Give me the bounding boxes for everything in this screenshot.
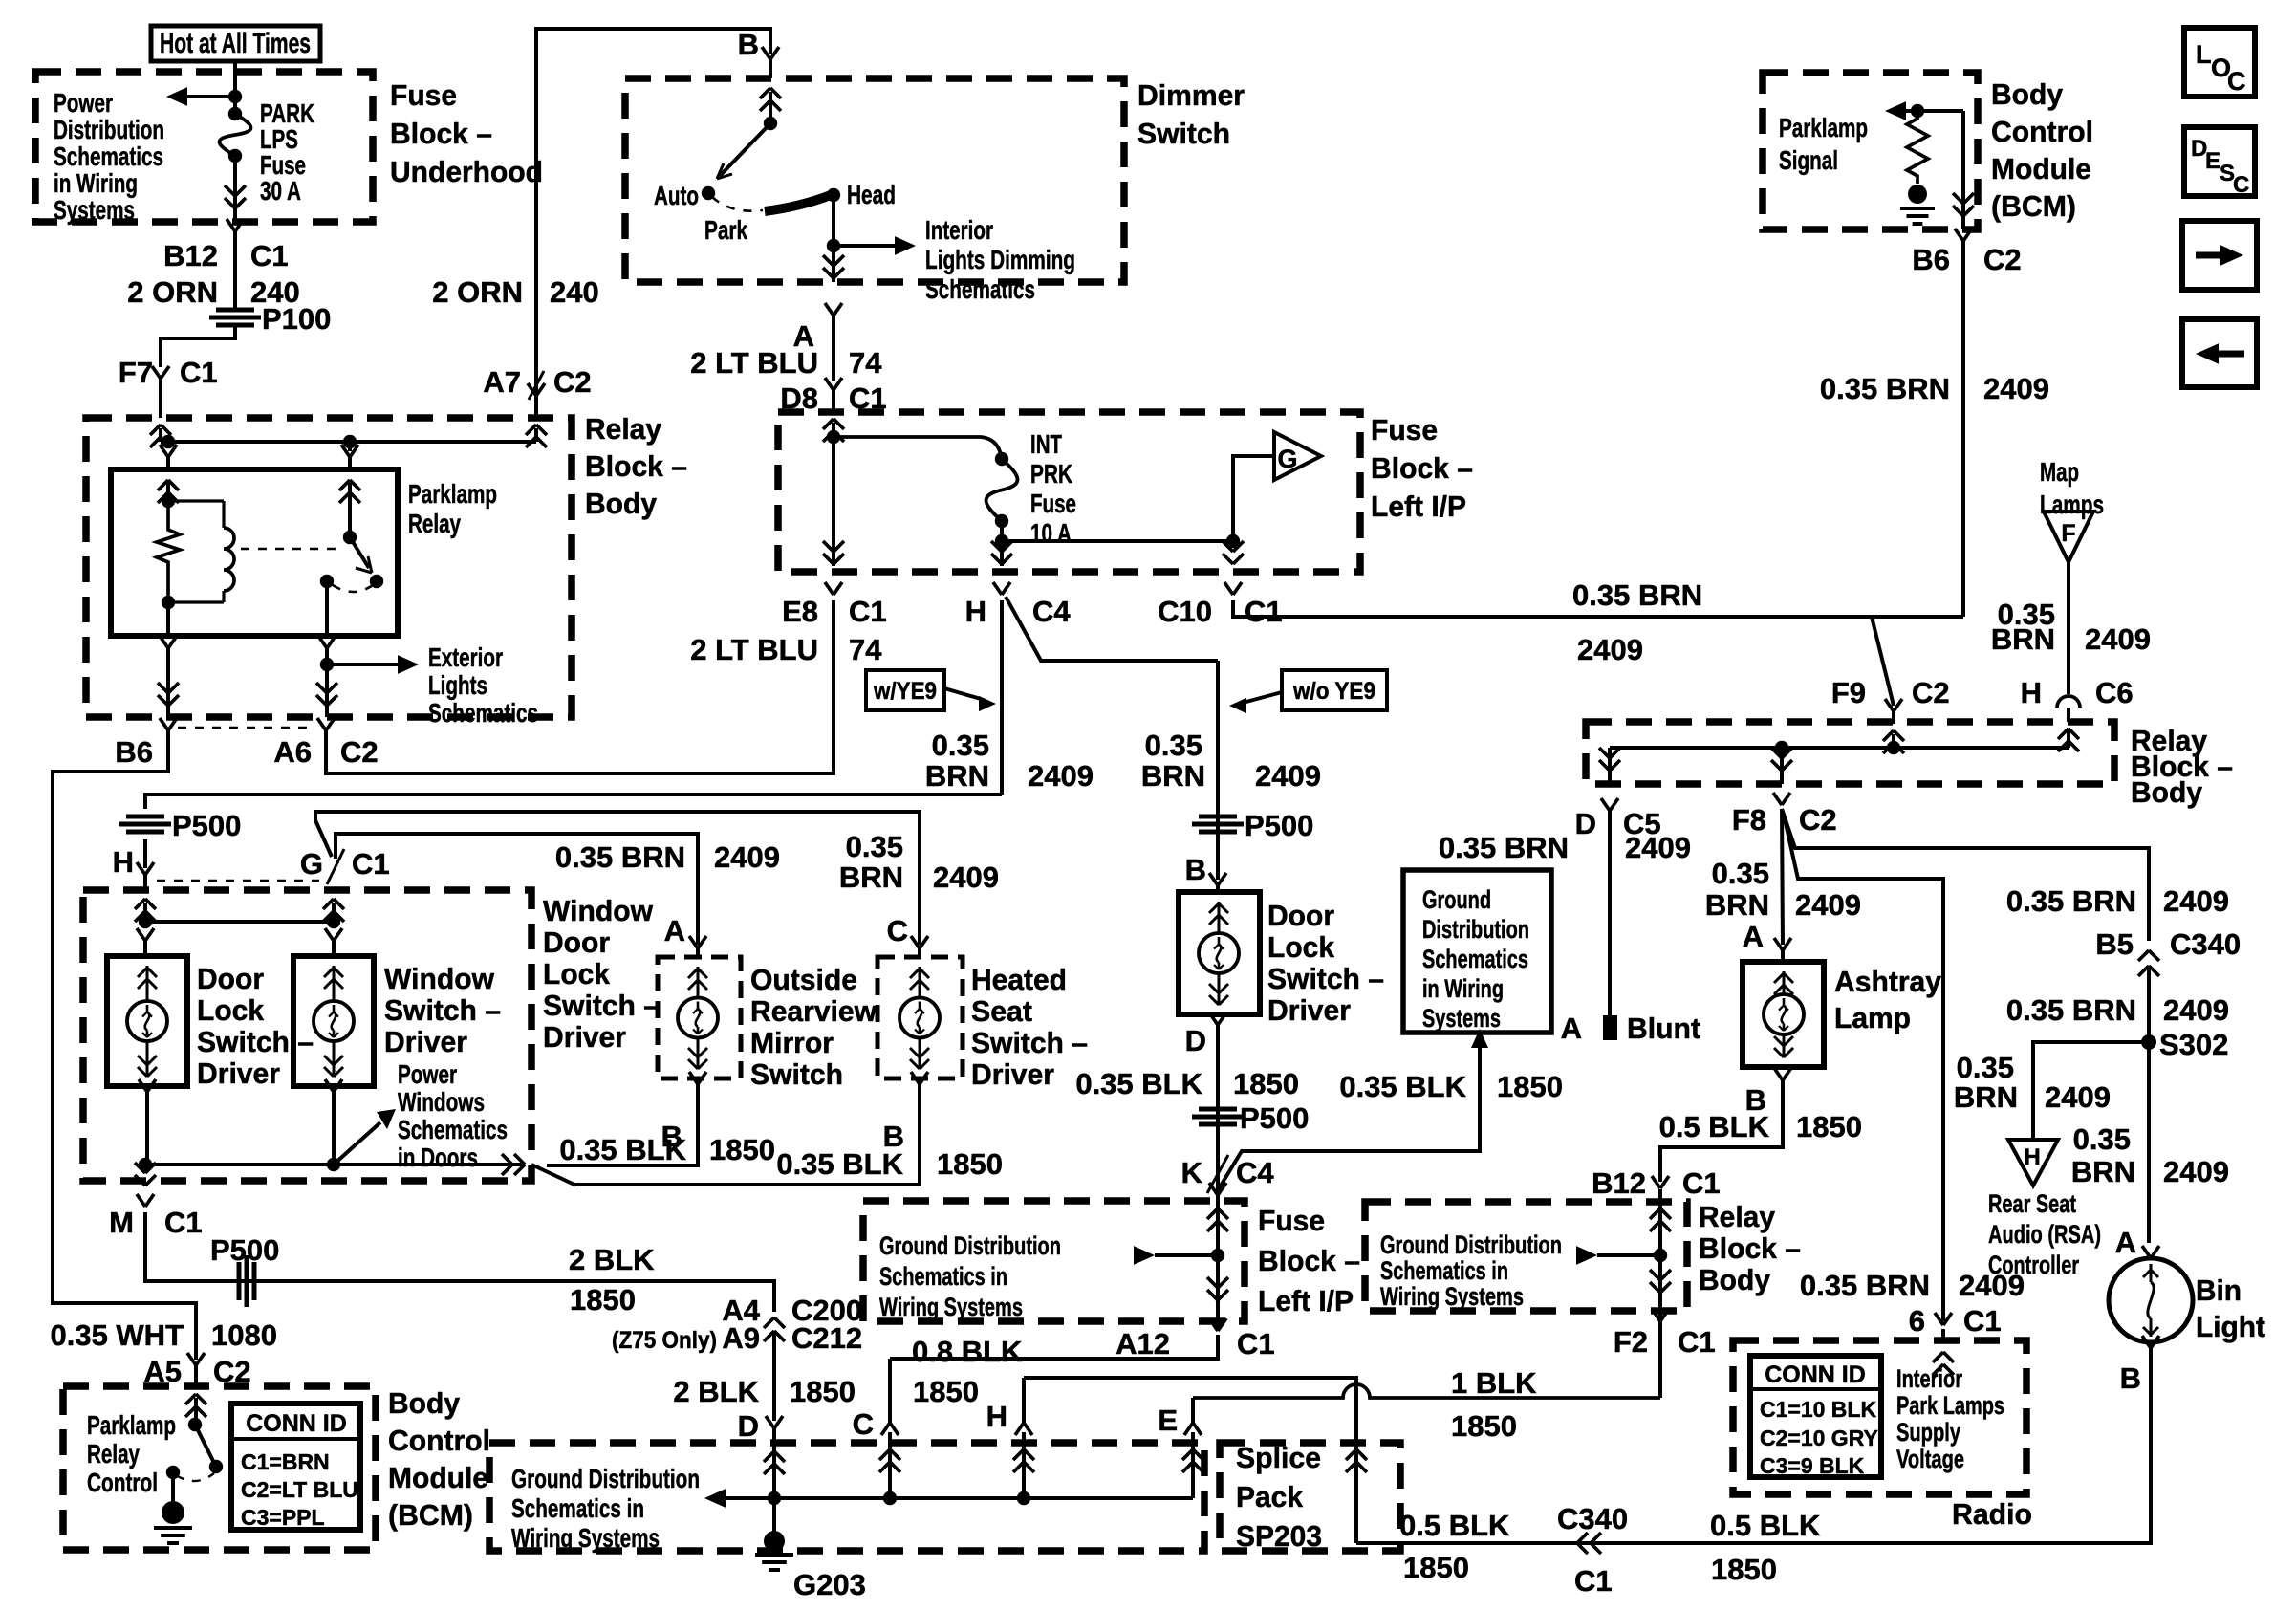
svg-text:Door: Door <box>543 925 610 959</box>
wire C10 run right <box>1233 600 1963 617</box>
svg-text:74: 74 <box>849 346 882 380</box>
wire left pass arrow <box>1134 1246 1155 1265</box>
svg-text:2409: 2409 <box>2163 1155 2229 1188</box>
svg-text:C1: C1 <box>1682 1166 1721 1200</box>
svg-text:Parklamp: Parklamp <box>408 479 497 509</box>
svg-text:Auto: Auto <box>654 181 699 210</box>
svg-text:Blunt: Blunt <box>1627 1012 1700 1045</box>
svg-text:F9: F9 <box>1831 676 1866 709</box>
svg-text:2409: 2409 <box>1577 633 1643 666</box>
connector D C5 <box>1601 798 1610 811</box>
door lock switch driver center box <box>1179 892 1260 1014</box>
wire power windows arrow <box>334 1122 380 1165</box>
svg-text:1 BLK: 1 BLK <box>1451 1366 1537 1400</box>
svg-text:Wiring Systems: Wiring Systems <box>1380 1282 1524 1311</box>
svg-text:Ground Distribution: Ground Distribution <box>511 1464 700 1493</box>
ashtray lamp box <box>1743 962 1824 1067</box>
svg-text:0.35 BRN: 0.35 BRN <box>1572 578 1702 612</box>
svg-text:C2=LT BLU: C2=LT BLU <box>241 1477 358 1502</box>
wire right pass arrow <box>1576 1246 1597 1265</box>
svg-text:Park Lamps: Park Lamps <box>1896 1391 2004 1420</box>
svg-text:A6: A6 <box>273 735 312 769</box>
connector E8 C1 <box>823 554 834 564</box>
connector door lock plug <box>137 928 145 941</box>
svg-text:BRN: BRN <box>1705 888 1769 922</box>
svg-text:Head: Head <box>847 180 896 209</box>
svg-text:A: A <box>1743 920 1764 953</box>
splice pack box <box>1220 1443 1400 1551</box>
svg-text:B: B <box>1185 853 1206 886</box>
wire HC6 entry arrow <box>2058 729 2069 739</box>
connector P100 <box>216 308 254 313</box>
wire ground ref branch <box>1218 1044 1480 1190</box>
svg-text:Systems: Systems <box>1422 1004 1501 1033</box>
callout w/o YE9 <box>1282 670 1387 710</box>
svg-text:C: C <box>887 914 908 947</box>
svg-text:BRN: BRN <box>1954 1080 2018 1114</box>
svg-text:74: 74 <box>849 633 882 666</box>
svg-text:2409: 2409 <box>1255 759 1321 793</box>
wire G inner loop to mirror <box>336 834 698 945</box>
svg-text:(BCM): (BCM) <box>1991 189 2076 223</box>
wire resistor leg out <box>166 602 170 636</box>
wire exterior lights arrow <box>327 663 398 666</box>
svg-text:C3=PPL: C3=PPL <box>241 1505 325 1530</box>
svg-text:C2: C2 <box>553 365 592 399</box>
wire fuse out <box>1000 521 1004 566</box>
node rail F8 <box>1775 741 1788 754</box>
node window rail right <box>327 915 340 928</box>
svg-text:0.35 BRN: 0.35 BRN <box>2006 884 2136 918</box>
svg-text:G: G <box>1277 445 1297 473</box>
svg-text:Driver: Driver <box>543 1020 626 1054</box>
svg-text:1850: 1850 <box>937 1147 1003 1181</box>
svg-text:Block –: Block – <box>1258 1244 1360 1277</box>
svg-text:P100: P100 <box>262 302 331 336</box>
svg-text:2409: 2409 <box>1028 759 1094 793</box>
wire P500 to H window box <box>143 839 147 868</box>
svg-text:H: H <box>113 845 134 879</box>
svg-text:0.5 BLK: 0.5 BLK <box>1710 1509 1821 1542</box>
svg-text:Switch –: Switch – <box>971 1026 1088 1059</box>
svg-text:C1: C1 <box>1245 595 1283 628</box>
wire parklamp signal arrow <box>1902 109 1963 113</box>
svg-text:Wiring Systems: Wiring Systems <box>879 1293 1023 1321</box>
svg-text:Control: Control <box>87 1468 158 1497</box>
connector relay pin right <box>348 442 352 451</box>
svg-text:0.35 BRN: 0.35 BRN <box>555 840 685 874</box>
conn id table radio <box>1750 1356 1881 1477</box>
svg-text:1850: 1850 <box>1403 1551 1469 1584</box>
svg-text:2409: 2409 <box>1983 372 2049 405</box>
node F2 junction <box>1654 1249 1667 1262</box>
wire H loop to splice <box>1024 1378 1356 1543</box>
wire B6 to left column <box>53 738 196 1360</box>
node parklamp junction <box>1911 104 1924 118</box>
door lock switch driver box <box>107 956 187 1086</box>
wire G outer loop to heated seat <box>315 812 920 945</box>
svg-text:C4: C4 <box>1032 595 1071 628</box>
svg-text:Systems: Systems <box>54 195 135 225</box>
wire F8 drop <box>1780 748 1784 784</box>
svg-text:2409: 2409 <box>2045 1080 2111 1114</box>
svg-text:C1: C1 <box>1678 1325 1716 1359</box>
connector B6 <box>160 718 168 730</box>
svg-text:(Z75 Only): (Z75 Only) <box>612 1327 717 1354</box>
svg-text:1850: 1850 <box>1796 1110 1862 1143</box>
connector B12 C1 <box>227 219 235 231</box>
switch arm relay <box>350 537 369 568</box>
arrow to ground ref box <box>1471 1029 1488 1048</box>
wire relay switch leg <box>348 483 352 537</box>
ground bcm top <box>1908 185 1927 204</box>
connector window switch plug <box>325 928 334 941</box>
svg-text:in Wiring: in Wiring <box>54 168 138 198</box>
svg-text:A: A <box>2115 1226 2136 1259</box>
svg-text:Block –: Block – <box>585 449 687 483</box>
svg-text:C4: C4 <box>1236 1156 1274 1189</box>
node G branch <box>1226 534 1240 548</box>
svg-text:A: A <box>1561 1012 1582 1045</box>
ground distribution schematics box solid <box>1403 870 1551 1033</box>
svg-text:BRN: BRN <box>1141 759 1205 793</box>
svg-text:M: M <box>109 1206 134 1239</box>
svg-text:H: H <box>2021 676 2042 709</box>
svg-text:Schematics: Schematics <box>398 1115 508 1144</box>
wire P100 to F7 <box>161 325 235 367</box>
wire map lamps down <box>2067 562 2070 694</box>
wire mirror ground <box>547 1084 698 1165</box>
svg-text:F7: F7 <box>119 356 153 389</box>
svg-text:C1: C1 <box>164 1206 203 1239</box>
svg-text:SP203: SP203 <box>1236 1519 1322 1553</box>
bcm box top <box>1763 73 1978 229</box>
wire dashed tie B6 A6 <box>178 727 315 729</box>
svg-text:Body: Body <box>585 487 658 520</box>
svg-text:2409: 2409 <box>2163 993 2229 1027</box>
connector P500 center lower <box>1199 1107 1237 1112</box>
svg-text:D: D <box>1575 807 1596 840</box>
wire head output <box>832 195 835 282</box>
wire heated ground <box>574 1084 920 1185</box>
window switch driver box <box>293 956 374 1086</box>
wire to INT PRK fuse <box>834 437 1002 461</box>
svg-text:Lock: Lock <box>543 957 611 991</box>
svg-text:S302: S302 <box>2159 1028 2228 1061</box>
svg-text:Heated: Heated <box>971 963 1067 996</box>
svg-text:1850: 1850 <box>1711 1553 1777 1586</box>
svg-text:Window: Window <box>543 894 654 927</box>
connector A4 C200 A9 C212 <box>764 1317 774 1328</box>
svg-text:H: H <box>965 595 986 628</box>
node fuse feed junction <box>827 430 840 444</box>
svg-text:Control: Control <box>1991 115 2093 148</box>
node bus H <box>1017 1491 1030 1505</box>
wire B entry <box>760 88 770 98</box>
svg-text:Schematics in: Schematics in <box>1380 1256 1508 1285</box>
svg-text:G203: G203 <box>793 1568 866 1601</box>
wire RSA branch <box>2033 1042 2149 1140</box>
svg-text:A12: A12 <box>1116 1327 1170 1361</box>
connector B heated out <box>911 1072 920 1084</box>
svg-text:H: H <box>986 1400 1007 1433</box>
wire B12 entry arrow <box>1658 1189 1662 1398</box>
node bus D <box>768 1491 781 1505</box>
wire M to A4 <box>145 1212 774 1312</box>
resistor R relay <box>157 501 180 602</box>
svg-text:Body: Body <box>388 1386 461 1420</box>
svg-text:Rearview: Rearview <box>750 994 877 1028</box>
svg-text:Power: Power <box>398 1059 457 1089</box>
svg-text:Bin: Bin <box>2196 1274 2242 1307</box>
node feed junction <box>228 90 242 103</box>
svg-text:1850: 1850 <box>1233 1067 1299 1100</box>
svg-text:0.5 BLK: 0.5 BLK <box>1399 1509 1510 1542</box>
svg-text:Outside: Outside <box>750 963 857 996</box>
node rail mid <box>343 435 357 448</box>
window door lock switch box <box>83 890 531 1181</box>
svg-text:C1: C1 <box>849 595 887 628</box>
node exterior branch <box>320 658 334 671</box>
connector D doorlock <box>1209 1012 1218 1025</box>
svg-text:Seat: Seat <box>971 994 1032 1028</box>
node resistor bottom <box>162 596 175 609</box>
svg-text:Ground Distribution: Ground Distribution <box>1380 1230 1562 1259</box>
svg-text:C1: C1 <box>1574 1564 1613 1598</box>
svg-text:0.35 BLK: 0.35 BLK <box>776 1147 903 1181</box>
connector B ashtray <box>1774 1068 1783 1080</box>
svg-text:2 LT BLU: 2 LT BLU <box>690 633 818 666</box>
svg-text:L: L <box>2196 40 2212 69</box>
svg-text:Interior: Interior <box>1896 1364 1962 1393</box>
svg-text:Schematics: Schematics <box>1422 945 1528 973</box>
svg-text:Signal: Signal <box>1779 145 1838 175</box>
svg-text:Switch: Switch <box>1137 117 1230 150</box>
connector H C4 <box>991 554 1002 564</box>
svg-text:in Doors: in Doors <box>398 1143 478 1172</box>
relay block body right box <box>1586 722 2114 784</box>
wire G branch <box>1233 456 1274 541</box>
svg-text:1850: 1850 <box>1497 1070 1563 1103</box>
wire radio entry arrow <box>1933 1352 1943 1362</box>
wire E8 down to A6 rail <box>326 600 834 773</box>
wire ground rail window box <box>145 1163 525 1166</box>
svg-text:Distribution: Distribution <box>54 115 164 144</box>
svg-text:Ground Distribution: Ground Distribution <box>879 1231 1061 1260</box>
symbol F triangle map lamps <box>2044 512 2093 562</box>
wire H entry <box>135 899 145 909</box>
wire G entry <box>323 899 334 909</box>
node Head contact <box>827 188 840 202</box>
svg-text:Module: Module <box>388 1461 488 1494</box>
svg-text:0.5 BLK: 0.5 BLK <box>1659 1110 1770 1143</box>
connector M C1 <box>135 1175 145 1186</box>
svg-text:Parklamp: Parklamp <box>87 1410 176 1440</box>
connector window switch out <box>325 1079 334 1092</box>
radio box <box>1733 1340 2026 1494</box>
svg-text:Relay: Relay <box>87 1439 140 1469</box>
wire ground bus arrow <box>704 1489 726 1508</box>
svg-text:2409: 2409 <box>714 840 780 874</box>
wire coil dashed link <box>241 548 340 551</box>
svg-text:Switch –: Switch – <box>543 989 660 1022</box>
connector relay out left <box>160 636 168 648</box>
svg-text:B: B <box>738 28 759 61</box>
svg-text:Hot at All Times: Hot at All Times <box>160 28 311 59</box>
svg-text:Interior: Interior <box>925 215 993 245</box>
svg-text:30 A: 30 A <box>260 176 301 206</box>
connector B6 C2 bcm <box>1955 229 1963 241</box>
svg-text:C2: C2 <box>1983 243 2022 276</box>
wire to bcm ground <box>171 1472 175 1503</box>
connector 6 C1 radio <box>1935 1313 1943 1325</box>
fuse F-PARK LPS 30A <box>228 107 242 120</box>
svg-text:Ground: Ground <box>1422 885 1491 914</box>
svg-text:P500: P500 <box>210 1233 279 1267</box>
svg-text:B12: B12 <box>1592 1166 1646 1200</box>
wire ground diagonal collector <box>531 1165 574 1185</box>
svg-text:2 LT BLU: 2 LT BLU <box>690 346 818 380</box>
svg-text:INT: INT <box>1030 429 1062 459</box>
wire A5 entry <box>185 1394 196 1404</box>
connector P500 center upper <box>1199 815 1237 819</box>
svg-text:C1: C1 <box>352 847 390 881</box>
connector P500 top left <box>126 815 164 819</box>
switch dashed arc bcm <box>176 1473 214 1481</box>
fuse block left IP box <box>778 412 1360 572</box>
svg-text:1850: 1850 <box>913 1375 979 1408</box>
svg-text:Distribution: Distribution <box>1422 915 1529 944</box>
svg-text:0.35 WHT: 0.35 WHT <box>50 1318 184 1352</box>
wire bcm output <box>1961 111 1965 229</box>
svg-text:Lamps: Lamps <box>2040 490 2104 519</box>
node dimmer pivot <box>764 117 777 130</box>
svg-text:Splice: Splice <box>1236 1441 1321 1474</box>
node bcm contact <box>209 1460 223 1473</box>
svg-text:BRN: BRN <box>839 860 903 894</box>
switch head thick arc <box>765 195 831 211</box>
wire ashtray A wire <box>1782 809 1783 945</box>
svg-text:D: D <box>1185 1024 1206 1057</box>
connector B12 C1 <box>1652 1176 1660 1188</box>
svg-text:2409: 2409 <box>933 860 999 894</box>
svg-text:Body: Body <box>2131 775 2203 809</box>
svg-text:0.35 BLK: 0.35 BLK <box>1075 1067 1202 1100</box>
svg-text:Lamp: Lamp <box>1834 1001 1911 1034</box>
svg-text:Relay: Relay <box>1699 1200 1776 1233</box>
svg-text:Schematics: Schematics <box>925 274 1035 304</box>
svg-text:F8: F8 <box>1732 803 1766 837</box>
svg-text:0.8 BLK: 0.8 BLK <box>912 1335 1023 1368</box>
wire E to F2 with bump <box>1193 1384 1660 1398</box>
ground distribution box bottom <box>489 1443 1204 1551</box>
svg-text:Lights: Lights <box>428 670 487 700</box>
relay block body box <box>86 418 572 717</box>
wire H C4 main down <box>1000 600 1004 795</box>
svg-text:2409: 2409 <box>1625 831 1691 864</box>
wire E riser <box>1191 1432 1195 1498</box>
svg-text:0.35 BRN: 0.35 BRN <box>1800 1269 1930 1302</box>
blunt terminal A <box>1603 1015 1617 1040</box>
svg-text:Supply: Supply <box>1896 1418 1960 1447</box>
node bcm lower contact <box>166 1466 180 1479</box>
wire exit chevron <box>514 1154 525 1165</box>
connector K C4 <box>1207 1155 1228 1193</box>
nav box prev <box>2182 319 2257 387</box>
svg-text:P500: P500 <box>1240 1101 1309 1135</box>
wire G dashed tie <box>157 880 319 882</box>
wire relay left leg <box>166 483 170 501</box>
node interior lights branch <box>827 239 840 252</box>
svg-text:B12: B12 <box>163 239 218 272</box>
svg-text:E: E <box>1158 1404 1178 1437</box>
wire center column <box>1216 661 1220 880</box>
svg-text:Power: Power <box>54 88 113 118</box>
svg-text:BRN: BRN <box>2071 1155 2135 1188</box>
svg-text:Controller: Controller <box>1988 1251 2079 1279</box>
svg-text:in Wiring: in Wiring <box>1422 974 1504 1003</box>
svg-text:6: 6 <box>1909 1304 1925 1338</box>
svg-text:1080: 1080 <box>211 1318 277 1352</box>
svg-text:Module: Module <box>1991 152 2091 185</box>
svg-text:2 BLK: 2 BLK <box>673 1375 759 1408</box>
svg-text:Switch –: Switch – <box>1267 962 1384 995</box>
node switch pivot <box>343 531 357 544</box>
svg-text:Pack: Pack <box>1236 1480 1304 1513</box>
node K junction <box>1211 1249 1224 1262</box>
nav box DESC <box>2184 127 2255 196</box>
svg-text:Block –: Block – <box>1699 1231 1801 1265</box>
svg-text:0.35: 0.35 <box>1712 857 1769 890</box>
svg-text:A: A <box>664 914 685 947</box>
svg-text:Relay: Relay <box>408 509 461 538</box>
svg-text:Lock: Lock <box>197 993 265 1027</box>
svg-text:1850: 1850 <box>570 1283 636 1317</box>
svg-text:Switch: Switch <box>750 1057 843 1091</box>
svg-text:Relay: Relay <box>585 412 662 446</box>
svg-text:Switch –: Switch – <box>384 993 501 1027</box>
svg-text:2 ORN: 2 ORN <box>127 275 218 309</box>
svg-text:C212: C212 <box>791 1321 862 1355</box>
svg-text:Schematics in: Schematics in <box>511 1493 644 1523</box>
wire power distribution arrow <box>185 95 235 98</box>
svg-text:Voltage: Voltage <box>1896 1445 1964 1473</box>
svg-text:Windows: Windows <box>398 1087 485 1117</box>
svg-text:0.35: 0.35 <box>846 830 903 863</box>
fuse block underhood box <box>35 72 373 222</box>
svg-text:Map: Map <box>2040 457 2079 487</box>
svg-text:Schematics: Schematics <box>54 142 163 171</box>
svg-text:C1: C1 <box>180 356 218 389</box>
node bus C <box>883 1491 897 1505</box>
bin light lamp <box>2109 1258 2193 1342</box>
svg-text:BRN: BRN <box>1991 622 2055 656</box>
svg-text:C1: C1 <box>1963 1304 2002 1338</box>
svg-text:Underhood: Underhood <box>390 155 543 188</box>
coil relay <box>168 499 224 502</box>
wire bin light ground <box>1356 1348 2151 1543</box>
wire B loop from relay block to dimmer <box>536 29 770 421</box>
wire E entry arrow <box>1182 1449 1193 1460</box>
resistor bcm <box>1907 111 1928 184</box>
wire splice entry arrow <box>1346 1449 1356 1460</box>
svg-text:H: H <box>2024 1144 2040 1170</box>
svg-text:0.35: 0.35 <box>1145 729 1202 762</box>
svg-text:0.35: 0.35 <box>932 729 989 762</box>
svg-text:Schematics: Schematics <box>428 698 538 728</box>
wire relay right rail <box>1610 746 2069 750</box>
connector relay out right <box>318 636 327 648</box>
